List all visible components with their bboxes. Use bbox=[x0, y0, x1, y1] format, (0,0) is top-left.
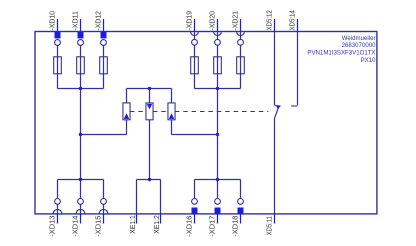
wire bus to terminal -XD14 bbox=[80, 180, 82, 199]
svg-text:-XD18: -XD18 bbox=[232, 216, 240, 237]
terminal -XD11 circle bbox=[78, 40, 84, 46]
terminal -XD17 plug square bbox=[215, 208, 221, 214]
terminal -XD19 circle bbox=[192, 39, 198, 45]
switch K1 NO contact tick bbox=[291, 105, 297, 107]
wire stub below XE1:1 bbox=[136, 214, 138, 224]
wire bus to terminal -XD17 bbox=[217, 180, 219, 199]
svg-text:-XD13: -XD13 bbox=[49, 216, 57, 237]
wire XD5:12 down to contact bbox=[274, 19, 276, 32]
wire circle to fuse F2 bbox=[80, 45, 82, 56]
wire stub above -XD11 bbox=[80, 19, 82, 32]
wire fuse F4 to right bus bbox=[194, 74, 196, 89]
right bus wire bbox=[195, 88, 241, 90]
svg-text:2683070000: 2683070000 bbox=[342, 42, 377, 49]
wire switch pole down (XD5:11) bbox=[274, 118, 276, 213]
junction dot right column bbox=[216, 133, 219, 136]
wire circle to fuse F6 bbox=[240, 45, 242, 57]
wire arc to circle -XD21 bbox=[240, 32, 242, 40]
switch K1 NC contact tick bbox=[275, 105, 279, 107]
wire stub below -XD18 bbox=[240, 214, 242, 224]
svg-text:-XD11: -XD11 bbox=[72, 11, 80, 31]
svg-text:XD5:11: XD5:11 bbox=[266, 216, 274, 235]
wire V3 bottom down bbox=[171, 120, 173, 135]
XE bus wire bbox=[137, 179, 161, 181]
opto top bus wire bbox=[127, 88, 172, 90]
opto V3 triangle (up) bbox=[169, 113, 174, 119]
wire stub above -XD20 bbox=[217, 19, 219, 32]
opto V2 box bbox=[146, 103, 153, 120]
dashed link V1 to V2 bbox=[130, 111, 146, 113]
wire opto bus to V1 top bbox=[126, 89, 128, 103]
terminal -XD15 circle bbox=[101, 199, 107, 205]
wire stub above -XD19 bbox=[194, 19, 196, 32]
terminal -XD12 circle bbox=[101, 40, 107, 46]
fuse F4 body wire bbox=[194, 57, 196, 74]
junction dot bottom-left bus bbox=[79, 178, 82, 181]
fuse F3 body wire bbox=[103, 57, 105, 74]
wire stub above -XD21 bbox=[240, 19, 242, 32]
wire opto bus to V3 top bbox=[171, 89, 173, 103]
wire bus to terminal -XD15 bbox=[103, 180, 105, 199]
svg-text:XE1:1: XE1:1 bbox=[129, 215, 137, 234]
fuse F5 body wire bbox=[217, 57, 219, 74]
opto V1 box bbox=[123, 103, 130, 120]
junction dot bottom-right bus bbox=[216, 178, 219, 181]
wire bus to terminal -XD13 bbox=[57, 180, 59, 199]
terminal -XD18 plug square bbox=[238, 208, 244, 214]
terminal -XD12 plug square bbox=[101, 32, 107, 38]
terminal -XD14 socket arc bbox=[76, 209, 85, 213]
device outline box bbox=[35, 32, 377, 214]
wire circle to arc -XD14 bbox=[80, 204, 82, 214]
terminal -XD16 circle bbox=[192, 199, 198, 205]
fuse F1 body wire bbox=[57, 57, 59, 74]
wire XD5:14 down to contact bbox=[297, 19, 299, 32]
terminal -XD20 circle bbox=[215, 39, 221, 45]
bottom-left bus wire bbox=[58, 179, 104, 181]
terminal -XD15 socket arc bbox=[99, 209, 108, 213]
terminal -XD21 circle bbox=[238, 39, 244, 45]
wire left column down to bottom-left bus bbox=[80, 135, 82, 180]
junction dot left column bbox=[79, 133, 82, 136]
terminal -XD20 socket arc bbox=[214, 32, 222, 36]
svg-text:-XD14: -XD14 bbox=[72, 216, 80, 237]
wire stub below -XD14 bbox=[80, 214, 82, 224]
svg-text:-XD19: -XD19 bbox=[186, 11, 194, 31]
wire XD5:11 stub below border bbox=[274, 214, 276, 224]
fuse F6 body wire bbox=[240, 57, 242, 74]
wire circle to fuse F3 bbox=[103, 45, 105, 56]
opto V1 triangle (up) bbox=[124, 113, 129, 119]
left bus wire bbox=[58, 88, 104, 90]
terminal -XD17 circle bbox=[215, 199, 221, 205]
dashed link V2 to V3 bbox=[153, 111, 168, 113]
wire circle to fuse F5 bbox=[217, 45, 219, 57]
wire V2 bottom down to XE bus bbox=[149, 120, 151, 180]
svg-text:-XD10: -XD10 bbox=[49, 11, 57, 31]
wire fuse F6 to right bus bbox=[240, 74, 242, 89]
svg-text:-XD21: -XD21 bbox=[232, 11, 240, 31]
svg-text:PX10: PX10 bbox=[361, 57, 377, 64]
fuse F4 bbox=[191, 57, 199, 74]
wire V1 bottom down bbox=[126, 120, 128, 135]
wire fuse F1 to left bus bbox=[57, 74, 59, 89]
wire stub below -XD15 bbox=[103, 214, 105, 224]
wire terminal XE1:1 bbox=[136, 180, 138, 214]
wire fuse F3 to left bus bbox=[103, 74, 105, 89]
wire circle to arc -XD15 bbox=[103, 204, 105, 214]
wire terminal XE1:2 bbox=[160, 180, 162, 214]
wire stub above -XD10 bbox=[57, 19, 59, 32]
wire stub below XE1:2 bbox=[160, 214, 162, 224]
wire circle to fuse F4 bbox=[194, 45, 196, 57]
fuse F2 body wire bbox=[80, 57, 82, 74]
switch K1 blade bbox=[275, 108, 279, 119]
wire V3 to right column bbox=[172, 134, 218, 136]
svg-text:-XD17: -XD17 bbox=[209, 216, 217, 237]
terminal -XD10 circle bbox=[55, 40, 61, 46]
wire fuse F5 to right bus bbox=[217, 74, 219, 89]
svg-text:XD5:14: XD5:14 bbox=[289, 10, 297, 30]
terminal -XD14 circle bbox=[78, 199, 84, 205]
svg-text:Weidmueller: Weidmueller bbox=[342, 35, 376, 42]
terminal -XD16 plug square bbox=[192, 208, 198, 214]
fuse F3 bbox=[100, 57, 108, 74]
fuse F5 bbox=[214, 57, 222, 74]
junction dot right bus bbox=[216, 87, 219, 90]
wire XD5:14 inside bbox=[297, 32, 299, 106]
wire V1 to left column bbox=[81, 134, 127, 136]
wire fuse F2 to left bus bbox=[80, 74, 82, 89]
wire right bus down crossing dashed link bbox=[217, 89, 219, 135]
terminal -XD21 socket arc bbox=[237, 32, 245, 36]
junction dot opto bus bbox=[148, 87, 151, 90]
wire circle to fuse F1 bbox=[57, 45, 59, 56]
svg-text:XD5:12: XD5:12 bbox=[266, 10, 274, 30]
wire stub above -XD12 bbox=[103, 19, 105, 32]
wire stub below -XD16 bbox=[194, 214, 196, 224]
opto V3 box bbox=[168, 103, 175, 120]
wire bus to terminal -XD18 bbox=[240, 180, 242, 199]
junction dot left bus bbox=[79, 87, 82, 90]
wire arc to circle -XD19 bbox=[194, 32, 196, 40]
fuse F1 bbox=[54, 57, 62, 74]
bottom-right bus wire bbox=[195, 179, 241, 181]
wire stub below -XD17 bbox=[217, 214, 219, 224]
fuse F2 bbox=[77, 57, 85, 74]
svg-text:-XD15: -XD15 bbox=[95, 216, 103, 237]
svg-text:-XD20: -XD20 bbox=[209, 11, 217, 31]
wire opto bus to V2 top bbox=[149, 89, 151, 103]
terminal -XD19 socket arc bbox=[191, 32, 199, 36]
terminal -XD13 socket arc bbox=[53, 209, 62, 213]
svg-text:XE1:2: XE1:2 bbox=[153, 215, 161, 234]
svg-text:-XD12: -XD12 bbox=[95, 11, 103, 31]
wire circle to arc -XD13 bbox=[57, 204, 59, 214]
svg-text:-XD16: -XD16 bbox=[186, 216, 194, 237]
wire XD5:12 inside bbox=[274, 32, 276, 106]
switch K1 blade arrowhead bbox=[276, 106, 281, 110]
wire stub below -XD13 bbox=[57, 214, 59, 224]
wire arc to circle -XD20 bbox=[217, 32, 219, 40]
terminal -XD10 plug square bbox=[55, 32, 61, 38]
terminal -XD11 plug square bbox=[78, 32, 84, 38]
dashed link V3 to switch K1 bbox=[175, 111, 269, 113]
fuse F6 bbox=[237, 57, 245, 74]
wire right column down to bottom-right bus bbox=[217, 135, 219, 180]
terminal -XD13 circle bbox=[55, 199, 61, 205]
svg-text:PVN1M1I3SXF3V1O1TX: PVN1M1I3SXF3V1O1TX bbox=[307, 49, 375, 56]
wire bus to terminal -XD16 bbox=[194, 180, 196, 199]
opto V2 triangle (down) bbox=[147, 104, 152, 110]
junction dot XE bus bbox=[148, 178, 151, 181]
terminal -XD18 circle bbox=[238, 199, 244, 205]
wire left bus down to lower junction bbox=[80, 89, 82, 135]
